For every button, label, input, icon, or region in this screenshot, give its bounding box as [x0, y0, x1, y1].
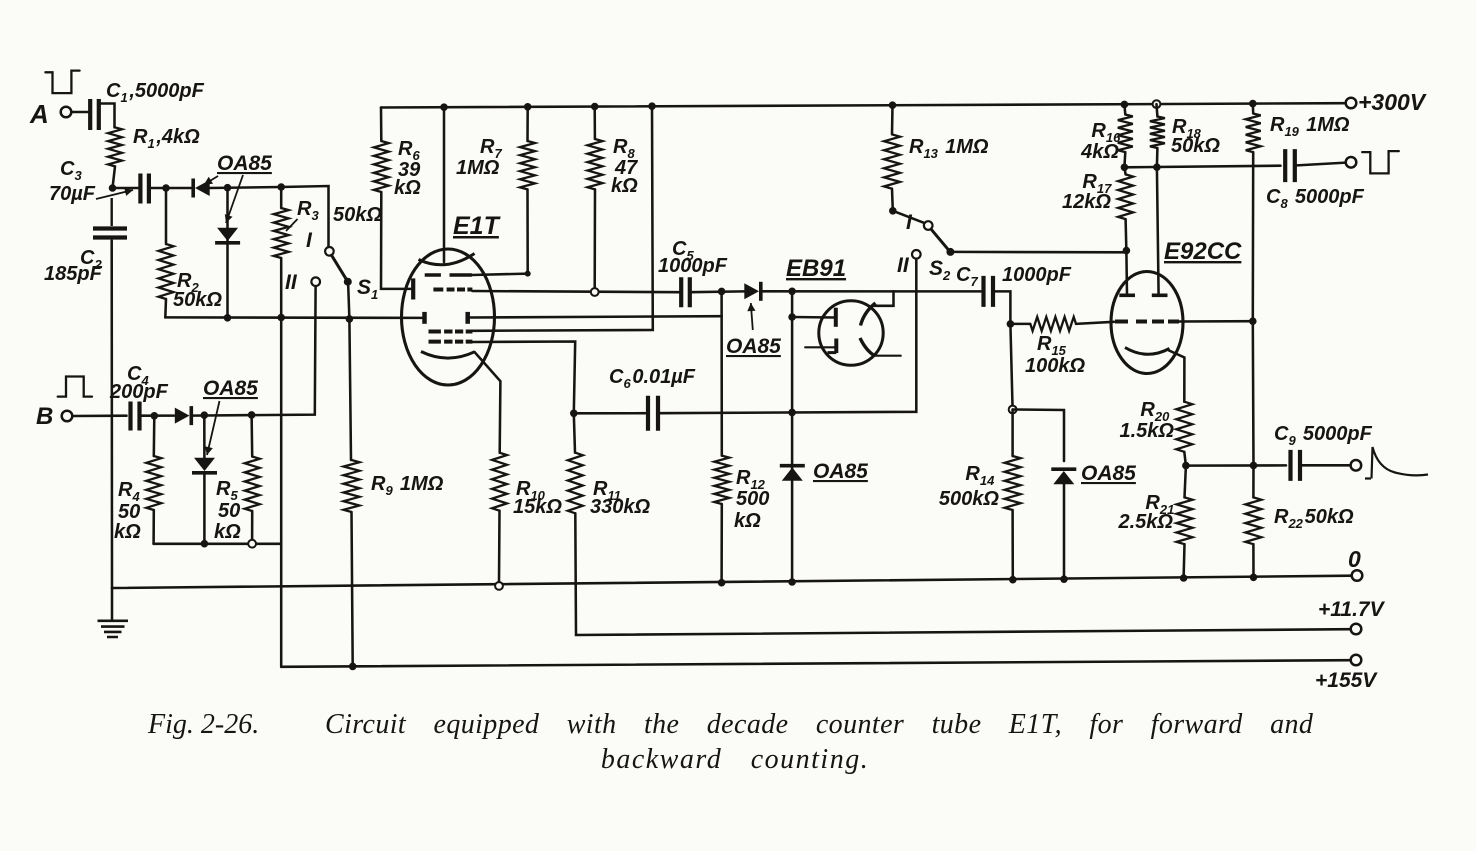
wire A-line corner down to S1 contact I	[281, 186, 328, 247]
junction R15 node	[1007, 320, 1015, 328]
junction R10 bottom on 0 rail	[495, 582, 503, 590]
output pulse symbol (negative)	[1362, 151, 1399, 173]
input pulse symbol B (positive pulse)	[58, 377, 92, 397]
svg-text:+11.7V: +11.7V	[1318, 598, 1386, 621]
wire 0 rail	[112, 576, 1352, 588]
EB91 cathode 2 plate	[860, 338, 875, 356]
junction R14/OA85 node	[1009, 406, 1017, 414]
resistor R3 with leads	[280, 187, 283, 208]
E1T grid row 1 dashes	[425, 273, 472, 277]
resistor R2 with leads	[165, 188, 168, 244]
E1T row4 anode wire to +300 column	[472, 106, 652, 331]
E1T row3 wire to R12 column	[470, 316, 722, 317]
E1T top lead from rail	[443, 107, 446, 262]
wire +300V top rail	[381, 103, 1346, 107]
junction R21 bottom on 0 rail	[1180, 574, 1188, 582]
switch S2 blade	[931, 229, 948, 249]
svg-text:kΩ: kΩ	[734, 510, 761, 532]
resistor R20 with lead	[1176, 402, 1192, 452]
annotation arrow 70uF to C3	[96, 190, 133, 199]
svg-text:1MΩ: 1MΩ	[456, 157, 500, 179]
wire diode to R3 node	[210, 187, 282, 188]
wire C6 left	[574, 412, 645, 415]
wire C7 to R15 node	[993, 291, 1010, 324]
switch S2 contact II	[912, 250, 921, 259]
tube E92CC envelope	[1111, 272, 1183, 374]
svg-text:kΩ: kΩ	[611, 175, 638, 197]
diode OA85 horizontal (A chain, cathode left)	[195, 180, 210, 196]
junction OA85-EB91 bottom on 0 rail	[788, 578, 796, 586]
capacitor C2 (horizontal plates)	[93, 229, 127, 238]
svg-text:12kΩ: 12kΩ	[1062, 191, 1111, 213]
svg-text:R22 50kΩ: R22 50kΩ	[1274, 506, 1354, 531]
wire grid net from R2 to E1T deflection electrode	[165, 316, 422, 319]
resistor R22 with leads	[1252, 465, 1255, 497]
ground stub	[111, 588, 114, 620]
svg-text:OA85: OA85	[203, 377, 258, 400]
svg-text:50kΩ: 50kΩ	[173, 289, 222, 311]
junction OA85-E92 bottom on 0 rail	[1060, 575, 1068, 583]
svg-text:500kΩ: 500kΩ	[939, 488, 999, 510]
junction R13 bottom	[889, 207, 897, 215]
svg-text:Circuit equipped with the deca: Circuit equipped with the decade counter…	[325, 709, 1314, 740]
svg-text:II: II	[285, 271, 298, 294]
wire to E92CC anode 1	[1125, 252, 1128, 295]
svg-text:EB91: EB91	[786, 255, 846, 282]
EB91 cathode 1	[834, 339, 838, 354]
capacitor C8	[1285, 149, 1295, 182]
svg-text:500: 500	[736, 488, 769, 510]
E1T row1 wire to R7	[472, 274, 528, 275]
svg-text:kΩ: kΩ	[394, 177, 421, 199]
switch S1 pivot	[344, 278, 352, 286]
junction R16/R17/C8 node	[1121, 164, 1129, 172]
E1T top dome electrode	[419, 254, 475, 265]
svg-text:70µF: 70µF	[49, 183, 96, 205]
diode OA85 vertical (B chain) with leads	[203, 415, 206, 460]
wire R3 bottom to tie column	[280, 318, 283, 544]
wire B to C4	[73, 414, 127, 417]
terminal A	[61, 107, 72, 118]
terminal +155V	[1351, 655, 1362, 666]
svg-text:200pF: 200pF	[109, 381, 169, 403]
capacitor C7	[984, 276, 994, 307]
svg-text:OA85: OA85	[726, 335, 781, 358]
E1T grid row 2 dashes	[433, 288, 472, 292]
wire C5 to diode	[690, 290, 744, 293]
svg-text:OA85: OA85	[813, 460, 868, 483]
wire R4/R5 bottom tie	[154, 543, 282, 546]
junction S2 wire / E92 anode1 column	[1123, 247, 1131, 255]
capacitor C4	[131, 402, 140, 431]
junction R16 / +300V rail	[1121, 101, 1129, 109]
switch S1 contact I	[325, 247, 334, 256]
wire C4 to diode	[140, 414, 175, 417]
junction R5 bottom on tie	[248, 540, 256, 548]
switch S2 contact I	[924, 221, 933, 230]
E92CC cathode arc	[1125, 348, 1170, 355]
terminal +300V	[1346, 98, 1357, 109]
terminal C9 output	[1351, 460, 1362, 471]
wire node to OA85-E92 column	[1013, 410, 1064, 462]
EB91 anode 1 bar with arm	[834, 308, 838, 327]
svg-text:1000pF: 1000pF	[1002, 264, 1072, 286]
svg-text:R9 1MΩ: R9 1MΩ	[371, 473, 444, 498]
tube EB91 envelope	[819, 301, 883, 365]
resistor R19 with lead	[1252, 104, 1255, 114]
wire C9 line	[1186, 464, 1286, 467]
diode OA85 (C5 chain, cathode right)	[744, 283, 759, 299]
resistor R18 with leads	[1155, 104, 1158, 116]
annotation arrow OA85-B to vertical diode	[207, 401, 220, 455]
ground symbol	[98, 621, 129, 637]
wire tie corner down to +155V rail	[280, 544, 283, 667]
resistor R15 (horizontal)	[1030, 317, 1076, 331]
E1T row2 wire to C5	[472, 291, 679, 292]
EB91 anode 2 plate	[861, 303, 876, 326]
svg-text:+155V: +155V	[1315, 669, 1378, 692]
wire +155V rail	[281, 660, 1350, 667]
E1T cathode bar left	[411, 278, 415, 299]
wire R1 to node	[113, 166, 116, 188]
EB91 cathode2 stub	[875, 355, 901, 357]
terminal 0	[1352, 570, 1363, 581]
svg-text:E1T: E1T	[453, 212, 502, 240]
E92CC anode 2 bar	[1152, 293, 1168, 297]
junction OA85-A bottom on grid net	[224, 314, 232, 322]
output spike symbol	[1365, 447, 1428, 479]
junction R13 / +300V rail	[889, 101, 897, 109]
wire node to C3	[113, 187, 141, 190]
junction R3 top	[277, 183, 285, 191]
junction R9 bottom on +155V rail	[349, 663, 357, 671]
junction R8 / +300V rail	[591, 103, 599, 111]
junction vertical diode top (A)	[224, 184, 232, 192]
svg-text:50kΩ: 50kΩ	[1171, 135, 1220, 157]
junction R2 top	[162, 184, 170, 192]
switch S1 contact II	[311, 277, 320, 286]
diode OA85 vertical (EB91 gate) with leads	[791, 291, 794, 582]
junction R5 top	[248, 411, 256, 419]
terminal C8 output	[1346, 157, 1357, 168]
svg-text:50: 50	[118, 501, 140, 523]
svg-text:backward counting.: backward counting.	[601, 744, 869, 775]
E1T cathode lead to R10	[475, 352, 501, 453]
resistor R14 with leads	[1011, 410, 1014, 457]
junction R12 bottom on 0 rail	[718, 579, 726, 587]
junction R3 bottom on grid net	[277, 314, 285, 322]
wire C8 to output terminal	[1295, 163, 1346, 166]
junction E1T top lead / +300V rail	[440, 103, 448, 111]
svg-text:B: B	[36, 403, 53, 430]
terminal B	[62, 411, 73, 422]
svg-text:C6 0.01µF: C6 0.01µF	[609, 366, 696, 391]
svg-text:100kΩ: 100kΩ	[1025, 355, 1085, 377]
E1T row5 wire to C6 junction	[472, 342, 575, 414]
resistor R5 with leads	[250, 415, 253, 457]
svg-text:0: 0	[1348, 546, 1361, 572]
junction R18 / +300V rail	[1153, 100, 1161, 108]
wire C6 right to S2-II column	[658, 259, 917, 413]
svg-text:R1 ,4kΩ: R1 ,4kΩ	[133, 126, 200, 151]
resistor R4 with leads	[153, 416, 156, 456]
svg-text:kΩ: kΩ	[114, 521, 141, 543]
junction R14 bottom on 0 rail	[1009, 576, 1017, 584]
annotation arrow OA85 to horizontal diode	[204, 176, 218, 185]
resistor R12 with leads	[720, 291, 723, 455]
resistor R13 with leads	[891, 105, 894, 134]
switch S2 pivot	[946, 248, 954, 256]
junction R19 / +300V rail	[1249, 100, 1257, 108]
resistor R11 with lead	[574, 413, 575, 452]
E92CC cathode lead to R20	[1169, 351, 1184, 402]
E1T grid row 5 dashes	[429, 340, 473, 344]
svg-text:R19 1MΩ: R19 1MΩ	[1270, 114, 1350, 139]
svg-text:A: A	[29, 99, 49, 129]
resistor R21 with leads	[1185, 466, 1186, 498]
wire R15 to E92CC grid	[1076, 322, 1114, 324]
junction node R1/C3/C2	[109, 184, 117, 192]
junction C6 wire / R11 top	[570, 410, 578, 418]
E92CC grid wire right	[1179, 320, 1253, 323]
resistor R6 with leads	[380, 108, 383, 142]
diode horizontal (B chain, cathode right)	[175, 408, 190, 424]
svg-text:OA85: OA85	[1081, 462, 1136, 485]
junction EB91 gate column on C6 wire	[788, 409, 796, 417]
junction R8 bottom on row2 wire	[591, 288, 599, 296]
svg-text:330kΩ: 330kΩ	[590, 496, 650, 518]
resistor R9 with leads	[349, 319, 351, 460]
E1T grid row 4 dashes	[429, 330, 473, 334]
svg-text:Fig. 2-26.: Fig. 2-26.	[147, 709, 259, 740]
wire C2 down to ground rail	[110, 241, 113, 589]
junction vertical diode top (B)	[201, 411, 209, 419]
wire C3 to diode OA85	[149, 187, 192, 190]
E92CC anode 1 bar	[1119, 293, 1135, 297]
wire node to R15	[1010, 323, 1030, 326]
svg-text:1000pF: 1000pF	[658, 255, 728, 277]
wire diode to S1-II corner	[191, 286, 315, 415]
wire A to C1	[72, 111, 89, 114]
svg-text:4kΩ: 4kΩ	[1080, 141, 1119, 163]
svg-text:50kΩ: 50kΩ	[333, 204, 382, 226]
junction S1 pivot / R9 on grid net	[346, 315, 354, 323]
resistor R10 with lead	[492, 453, 507, 511]
annotation arrow OA85 up to diode	[751, 303, 753, 330]
E1T bottom cathode arc	[421, 352, 475, 359]
junction EB91 gate column top	[788, 288, 796, 296]
wire diode to EB91/C7 line	[761, 290, 981, 293]
wire R18 column to E92CC anode 2	[1157, 167, 1159, 295]
capacitor C9	[1291, 450, 1301, 481]
EB91 anode2 lead up to C7 wire	[874, 291, 893, 306]
svg-text:15kΩ: 15kΩ	[513, 496, 562, 518]
svg-text:E92CC: E92CC	[1164, 238, 1242, 265]
wire S1 pivot down to grid net	[348, 285, 349, 319]
wire R14 column upper	[1010, 324, 1012, 410]
svg-text:R13 1MΩ: R13 1MΩ	[909, 136, 989, 161]
svg-text:kΩ: kΩ	[214, 521, 241, 543]
junction R22 bottom on 0 rail	[1250, 574, 1258, 582]
svg-text:1.5kΩ: 1.5kΩ	[1119, 420, 1174, 442]
annotation arrow OA85 to vertical diode	[226, 175, 243, 223]
resistor R16 with lead	[1123, 104, 1126, 114]
switch S1 blade	[332, 255, 347, 279]
svg-text:+300V: +300V	[1358, 89, 1427, 115]
wire C8 line	[1124, 166, 1280, 168]
diode OA85 vertical (A chain) with leads	[226, 188, 229, 318]
resistor R1	[108, 127, 122, 166]
capacitor C5	[681, 277, 690, 307]
E1T deflection plate left bracket	[422, 312, 427, 324]
junction anode wire / +300V rail	[648, 102, 656, 110]
junction R22 top / C9 wire	[1250, 462, 1258, 470]
svg-text:2.5kΩ: 2.5kΩ	[1117, 511, 1173, 533]
junction EB91 anode1 arm	[788, 313, 796, 321]
E1T deflection plate right bracket	[465, 312, 470, 324]
terminal +11.7V	[1351, 624, 1362, 635]
wire S2 pivot to R17/E92 grid column	[950, 251, 1126, 254]
wire R19 column to C9 node	[1252, 321, 1255, 465]
wire R13 to S2 contact I	[893, 211, 924, 223]
svg-text:OA85: OA85	[217, 152, 272, 175]
capacitor C6	[648, 396, 658, 431]
junction R12 top	[718, 288, 726, 296]
junction R7 / +300V rail	[524, 103, 532, 111]
input pulse symbol A (negative pulse)	[45, 71, 79, 94]
wire C9 to output terminal	[1300, 464, 1351, 467]
E92CC grid dashes	[1115, 320, 1179, 324]
svg-text:II: II	[897, 254, 910, 277]
resistor R17 with leads	[1124, 167, 1125, 174]
tube E1T envelope	[402, 249, 495, 385]
diode OA85 vertical (E92 cathode) with lead	[1053, 471, 1074, 484]
junction R20/R21/C9 node	[1182, 462, 1190, 470]
junction R4 top	[151, 412, 159, 420]
resistor R8 with leads	[593, 107, 596, 140]
wire +11.7V rail	[575, 513, 1350, 635]
capacitor C3	[140, 174, 149, 204]
wire C1 to R1	[99, 104, 115, 128]
junction R18 bottom / C8 wire	[1153, 163, 1161, 171]
svg-text:185pF: 185pF	[44, 263, 103, 285]
resistor R7 with leads	[526, 107, 529, 141]
junction diode B bottom on tie	[201, 540, 209, 548]
svg-text:50: 50	[218, 500, 240, 522]
capacitor C1	[90, 99, 99, 130]
junction grid wire / R19 column	[1249, 317, 1257, 325]
